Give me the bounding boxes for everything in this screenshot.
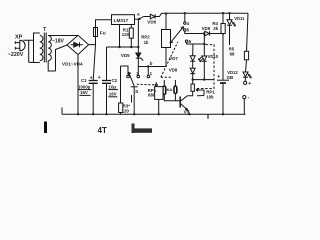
switch S pole2 contact 6 <box>185 39 191 44</box>
svg-text:VD1~VD4: VD1~VD4 <box>62 61 83 66</box>
wire plug to transformer <box>23 40 33 62</box>
svg-text:KA: KA <box>167 87 173 92</box>
wire secondary bottom to bridge left vertex <box>48 45 67 71</box>
wire bridge bottom to rail <box>77 55 79 115</box>
wire VD9 to R4 <box>210 33 224 35</box>
transformer core <box>44 33 46 63</box>
gang dashed link diagonal <box>161 42 178 78</box>
bridge rectifier VD1~VD4 <box>67 35 89 54</box>
svg-text:1000µ: 1000µ <box>78 85 91 90</box>
relay coil second element <box>174 80 177 101</box>
svg-text:XP: XP <box>15 35 23 41</box>
svg-text:10k: 10k <box>206 94 214 99</box>
svg-text:VD9: VD9 <box>202 26 211 31</box>
transformer T secondary <box>48 35 51 60</box>
wire stub below rail <box>207 114 209 119</box>
svg-text:VD5: VD5 <box>121 53 130 58</box>
resistor R3 <box>119 103 123 113</box>
svg-text:VD8: VD8 <box>169 67 178 72</box>
wire stub near RP1 <box>131 95 133 103</box>
svg-text:1k: 1k <box>144 40 149 45</box>
fuse Fu <box>93 28 97 81</box>
wire VD5 node line <box>107 46 139 48</box>
LED VD12 <box>243 72 251 81</box>
svg-text:+: + <box>98 75 101 81</box>
resistor R1 <box>118 25 133 49</box>
svg-text:68: 68 <box>230 51 235 56</box>
switch S pole1 contact left <box>121 66 130 78</box>
svg-text:+: + <box>90 76 93 82</box>
svg-text:C1: C1 <box>81 78 87 83</box>
switch S pole2 contact 4 <box>184 12 190 26</box>
potentiometer RP3 <box>187 84 204 96</box>
transformer T primary <box>34 33 43 63</box>
battery GB <box>217 34 229 115</box>
svg-text:LM317: LM317 <box>114 18 129 23</box>
caption fragment mark <box>132 124 135 134</box>
svg-text:680: 680 <box>148 93 156 98</box>
LED VD10 <box>199 34 207 80</box>
gang dashed link pole1 <box>137 83 159 86</box>
terminal + <box>244 81 252 87</box>
capacitor C2 <box>102 47 111 114</box>
resistor R4 <box>221 12 225 34</box>
svg-text:T: T <box>43 27 46 33</box>
wire top rail <box>155 13 248 16</box>
wire to VD7 <box>192 44 194 56</box>
switch S pole1 contact 2 <box>136 67 139 78</box>
switch S pole2 arm / RP2 wiper <box>170 26 184 43</box>
diode VD7 <box>169 56 195 61</box>
wire to RP3 wiper <box>193 79 214 81</box>
svg-text:~220V: ~220V <box>8 52 24 58</box>
LED VD11 <box>227 12 236 45</box>
svg-text:16V: 16V <box>109 91 117 96</box>
switch S pole1 arm <box>129 72 138 114</box>
caption fragment smear <box>135 128 153 132</box>
potentiometer RP2 <box>162 12 171 66</box>
svg-text:VD6: VD6 <box>147 19 156 24</box>
bottom rail <box>62 108 246 116</box>
svg-text:10µ: 10µ <box>109 85 117 90</box>
capacitor C1 <box>89 81 98 115</box>
svg-text:120: 120 <box>122 32 130 37</box>
terminal - <box>243 95 250 114</box>
dashed link to relay <box>161 76 172 78</box>
svg-text:VD10: VD10 <box>208 54 219 59</box>
resistor R5 <box>244 13 248 72</box>
svg-text:b: b <box>150 61 153 66</box>
potentiometer RP1 <box>155 82 163 114</box>
node b line <box>138 66 166 68</box>
diode VD5 <box>136 53 143 61</box>
svg-text:RP2: RP2 <box>141 34 150 39</box>
svg-text:~18V: ~18V <box>52 39 64 45</box>
wire bridge right vertex up to LM317 <box>89 20 112 45</box>
diode VD8 <box>169 61 196 86</box>
svg-text:S: S <box>135 89 138 94</box>
svg-text:a: a <box>137 12 140 17</box>
plug XP <box>15 40 25 51</box>
relay coil KA <box>163 80 180 101</box>
caption fragment bar <box>44 122 47 134</box>
diode VD9 <box>185 26 211 36</box>
regulator U1 LM317 <box>112 15 135 25</box>
wire secondary top to bridge <box>48 35 78 37</box>
transistor VT <box>180 96 189 114</box>
wire node a down to node b <box>139 17 143 19</box>
svg-text:+: + <box>248 81 251 87</box>
svg-text:Fu: Fu <box>100 30 106 36</box>
svg-text:VD11: VD11 <box>234 16 245 21</box>
svg-text:4T: 4T <box>98 126 107 133</box>
node a <box>135 12 141 20</box>
svg-text:+: + <box>217 74 220 80</box>
switch S pole1 contact 1 <box>147 67 153 78</box>
wire R3 branch <box>120 66 122 114</box>
diode VD6 <box>144 14 157 24</box>
wire contact 6 <box>187 43 205 45</box>
svg-text:GB: GB <box>227 75 234 80</box>
svg-text:C2: C2 <box>112 78 118 83</box>
switch S pole2 contact 5 <box>184 28 190 33</box>
svg-text:2k: 2k <box>213 26 218 31</box>
dashed enclosure <box>196 45 214 89</box>
svg-text:120: 120 <box>122 108 130 113</box>
svg-text:16V: 16V <box>80 90 88 95</box>
